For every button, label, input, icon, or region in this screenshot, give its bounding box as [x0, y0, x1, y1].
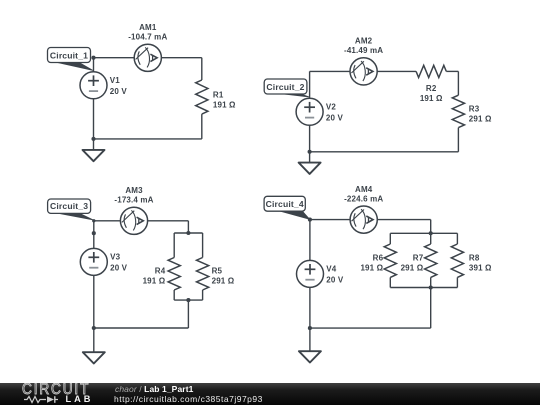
- wire c3 to network: [187, 221, 189, 233]
- svg-text:191 Ω: 191 Ω: [420, 94, 443, 103]
- wire R2 right lead: [446, 70, 458, 72]
- svg-text:V4: V4: [326, 265, 336, 274]
- wire c3 left column: [93, 221, 95, 328]
- node junction c4 bottom: [308, 326, 312, 330]
- svg-text:-41.49 mA: -41.49 mA: [344, 46, 383, 55]
- resistor R2: [416, 65, 446, 77]
- svg-text:Circuit_4: Circuit_4: [266, 199, 304, 209]
- svg-text:291 Ω: 291 Ω: [469, 114, 492, 123]
- voltage source V4: [297, 260, 324, 287]
- wire c3 network to bottom: [187, 300, 189, 328]
- resistor R7: [425, 244, 437, 277]
- svg-text:R6: R6: [373, 254, 384, 263]
- node junction c1 bottom: [91, 137, 95, 141]
- node flag Circuit_3: [51, 212, 93, 220]
- wire R6 top lead: [389, 233, 391, 244]
- svg-text:V3: V3: [110, 253, 120, 262]
- wire c2 ground stem: [309, 152, 311, 163]
- node junction c3 bar top: [186, 231, 190, 235]
- parallel top bar c3: [174, 232, 202, 234]
- wire R5 bottom lead: [202, 290, 204, 300]
- wire bottom c4: [310, 327, 431, 329]
- node junction c2 bottom: [308, 150, 312, 154]
- voltage source V1: [80, 72, 107, 99]
- svg-text:391 Ω: 391 Ω: [469, 263, 492, 272]
- wire c1 top: [94, 57, 202, 59]
- wire R5 top lead: [202, 233, 204, 258]
- svg-text:AM3: AM3: [125, 186, 143, 195]
- svg-text:R3: R3: [469, 105, 480, 114]
- wire c4 top: [310, 219, 431, 221]
- wire R8 bottom lead: [456, 277, 458, 287]
- svg-text:R2: R2: [426, 84, 437, 93]
- svg-text:AM1: AM1: [139, 23, 157, 32]
- resistor R5: [197, 258, 209, 291]
- node junction c3 bar bottom: [186, 298, 190, 302]
- svg-text:R5: R5: [212, 267, 223, 276]
- wire c2 top: [310, 70, 417, 72]
- svg-text:291 Ω: 291 Ω: [401, 263, 424, 272]
- svg-text:V1: V1: [110, 76, 120, 85]
- ammeter AM2: [350, 58, 377, 85]
- wire R8 top lead: [456, 233, 458, 244]
- wire R6 bottom lead: [389, 277, 391, 287]
- wire bottom c1: [94, 138, 202, 140]
- ground: [299, 351, 321, 362]
- resistor R8: [451, 244, 463, 277]
- resistor R1: [196, 80, 208, 114]
- wire R7 bottom lead: [430, 277, 432, 287]
- node junction c4 corner: [308, 218, 312, 222]
- svg-text:20 V: 20 V: [110, 263, 128, 272]
- circuitlab logo: [22, 381, 90, 399]
- wire c4 left column: [309, 220, 311, 329]
- parallel bottom bar c4: [390, 287, 457, 289]
- node junction c4 bar bottom: [429, 285, 433, 289]
- wire R4 top lead: [173, 233, 175, 258]
- resistor R6: [384, 244, 396, 277]
- svg-text:R4: R4: [155, 267, 166, 276]
- parallel bottom bar c3: [174, 299, 202, 301]
- svg-text:-224.6 mA: -224.6 mA: [344, 194, 383, 203]
- ammeter AM1: [134, 44, 161, 71]
- wire R1 top lead: [201, 58, 203, 80]
- resistor R3: [452, 95, 464, 127]
- wire c4 ground stem: [309, 328, 311, 351]
- node junction c4 bar top: [429, 231, 433, 235]
- svg-text:Circuit_1: Circuit_1: [50, 50, 88, 60]
- wire c1 left column: [93, 58, 95, 139]
- svg-text:191 Ω: 191 Ω: [213, 100, 236, 109]
- svg-text:AM4: AM4: [355, 185, 373, 194]
- ammeter AM4: [350, 206, 377, 233]
- wire c1 ground stem: [93, 139, 95, 150]
- resistor R4: [168, 258, 180, 291]
- wire R1 bottom lead: [201, 114, 203, 139]
- wire R4 bottom lead: [173, 290, 175, 300]
- ground: [299, 163, 321, 174]
- node junction c1 top: [91, 56, 95, 60]
- wire c3 ground stem: [93, 328, 95, 352]
- wire c3 top: [94, 220, 189, 222]
- wire bottom c2: [310, 151, 459, 153]
- svg-text:-173.4 mA: -173.4 mA: [114, 196, 153, 205]
- footer bar: [0, 383, 540, 405]
- wire R3 top lead: [457, 71, 459, 95]
- node junction c3 bottom: [92, 326, 96, 330]
- svg-text:20 V: 20 V: [326, 113, 344, 122]
- wire c4 network to bottom: [430, 288, 432, 329]
- wire R3 bottom lead: [457, 128, 459, 152]
- svg-text:191 Ω: 191 Ω: [143, 276, 166, 285]
- svg-text:Circuit_2: Circuit_2: [266, 82, 304, 92]
- svg-text:R8: R8: [469, 254, 480, 263]
- svg-text:R7: R7: [413, 254, 424, 263]
- wire bottom c3: [94, 327, 189, 329]
- node junction c3 corner: [92, 219, 95, 222]
- svg-text:291 Ω: 291 Ω: [212, 276, 235, 285]
- svg-text:-104.7 mA: -104.7 mA: [128, 33, 167, 42]
- svg-text:20 V: 20 V: [110, 87, 128, 96]
- wire c4 to network: [430, 220, 432, 234]
- ammeter AM3: [120, 207, 147, 234]
- wire c2 left column: [309, 71, 311, 151]
- svg-text:R1: R1: [213, 91, 224, 100]
- svg-text:20 V: 20 V: [326, 275, 344, 284]
- node flag Circuit_4: [275, 210, 310, 220]
- ground: [83, 352, 105, 363]
- voltage source V3: [80, 248, 107, 275]
- svg-text:AM2: AM2: [355, 37, 373, 46]
- ground: [83, 150, 105, 161]
- svg-text:191 Ω: 191 Ω: [360, 263, 383, 272]
- voltage source V2: [296, 98, 323, 125]
- svg-text:V2: V2: [326, 103, 336, 112]
- svg-text:Circuit_3: Circuit_3: [50, 201, 88, 211]
- node flag Circuit_2: [271, 93, 310, 98]
- parallel top bar c4: [390, 232, 457, 234]
- wire R7 top lead: [430, 233, 432, 244]
- node junction c3 left: [92, 231, 96, 235]
- node flag Circuit_1: [51, 61, 93, 70]
